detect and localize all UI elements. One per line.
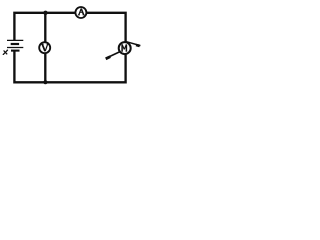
wire voltmeter branch top [44,13,46,42]
motor label M [121,44,127,51]
wire motor to bottom-right corner, bottom wire, up to battery bottom [14,51,125,82]
wire top from ammeter to top-right corner down to motor [87,13,126,42]
motor circle [119,42,131,54]
wire voltmeter branch bottom [44,54,46,83]
ammeter label A [78,9,85,16]
battery label x [3,50,8,55]
battery plate long thin 1 [7,39,23,41]
wire left side and top, battery to ammeter [14,13,75,41]
voltmeter label V [41,44,48,51]
motor brush upper-right [126,42,140,46]
ammeter circle [75,7,86,18]
junction dot bottom node [43,80,47,84]
junction dot top node [43,11,47,15]
motor brush lower-left [106,52,120,59]
voltmeter circle [39,42,50,53]
battery plate short thick 1 [11,43,19,45]
battery plate long thin 2 [7,46,23,48]
battery plate short thick 2 [11,50,20,52]
